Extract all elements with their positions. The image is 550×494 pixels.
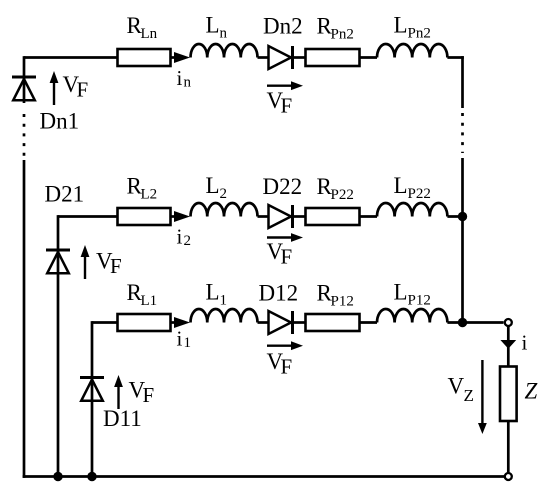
svg-text:F: F — [281, 94, 293, 118]
inductor L_Pn2 — [377, 44, 447, 58]
svg-text:i: i — [177, 225, 183, 249]
svg-text:i: i — [522, 331, 528, 355]
inductor L_1 — [191, 309, 258, 323]
wire: row 1 after resistor — [171, 321, 177, 324]
terminal: output bottom — [505, 473, 512, 480]
wire: row 2 after resistor — [171, 215, 177, 218]
current arrow i (load) — [500, 340, 516, 349]
wire: D21 branch vertical — [57, 215, 60, 476]
V_F arrow under diode Dn2 — [267, 84, 293, 86]
node: junction row 2 right — [458, 212, 467, 221]
svg-text:2: 2 — [220, 186, 228, 202]
diode D11 — [80, 376, 104, 379]
svg-text:P12: P12 — [331, 294, 354, 310]
svg-text:P22: P22 — [331, 187, 354, 203]
resistor R_P12 — [306, 314, 360, 331]
wire: row 2 left segment — [58, 215, 118, 218]
svg-text:L: L — [394, 280, 408, 305]
svg-text:F: F — [77, 78, 89, 102]
svg-text:D21: D21 — [45, 182, 85, 207]
wire: terminal to load Z — [507, 327, 510, 367]
current arrow i_2 — [174, 211, 190, 222]
diode Dn1 — [12, 76, 36, 79]
V_F arrow under diode D22 — [267, 236, 293, 238]
wire: row 2 inductor to diode — [258, 215, 270, 218]
wire: row 1 inductor to diode — [258, 321, 270, 324]
wire: right column lower vertical — [461, 158, 464, 323]
wire: row 1 left segment — [92, 321, 118, 324]
svg-text:L2: L2 — [141, 187, 158, 203]
wire: bottom return — [23, 475, 504, 478]
inductor L_n — [191, 44, 258, 58]
resistor R_Pn2 — [306, 49, 360, 66]
V_F arrow beside D11 — [117, 385, 119, 409]
current arrow i_n — [174, 52, 190, 63]
svg-text:Dn2: Dn2 — [263, 14, 303, 39]
svg-text:Z: Z — [525, 379, 538, 404]
node: junction D21 bottom — [53, 472, 62, 481]
svg-text:i: i — [177, 327, 183, 351]
inductor L_2 — [191, 203, 258, 217]
svg-text:1: 1 — [184, 335, 192, 351]
inductor L_P12 — [377, 309, 447, 323]
V_Z arrow — [481, 360, 483, 424]
wire: row n diode to resistor2 — [293, 56, 307, 59]
wire: dotted continuation left column — [23, 114, 26, 157]
terminal: output top — [505, 319, 512, 326]
svg-text:Z: Z — [464, 386, 474, 405]
svg-text:P12: P12 — [408, 293, 431, 309]
wire: D11 branch vertical — [91, 321, 94, 476]
svg-text:Pn2: Pn2 — [331, 27, 354, 43]
V_F arrow beside Dn1 — [53, 81, 55, 105]
svg-text:i: i — [177, 66, 183, 90]
svg-text:D11: D11 — [103, 406, 142, 431]
svg-text:V: V — [448, 374, 465, 399]
svg-text:L: L — [394, 173, 408, 198]
wire: row 1 to inductor2 — [360, 321, 378, 324]
V_F arrow beside D21 — [84, 255, 86, 279]
wire: row 1 junction to output terminal — [463, 321, 504, 324]
svg-text:Ln: Ln — [141, 26, 158, 42]
wire: right column top vertical — [461, 56, 464, 108]
resistor R_Ln — [118, 49, 171, 66]
current arrow i_1 — [174, 317, 190, 328]
inductor L_P22 — [377, 203, 447, 217]
svg-text:P22: P22 — [408, 186, 431, 202]
svg-text:Dn1: Dn1 — [40, 109, 80, 134]
node: junction D11 bottom — [87, 472, 96, 481]
svg-text:F: F — [143, 383, 155, 407]
svg-text:F: F — [110, 254, 122, 278]
svg-text:L1: L1 — [141, 293, 158, 309]
svg-text:F: F — [281, 245, 293, 269]
svg-text:F: F — [281, 355, 293, 379]
wire: row n to inductor2 — [360, 56, 378, 59]
wire: row n left segment — [24, 56, 118, 59]
svg-text:L: L — [206, 173, 220, 198]
wire: row 2 right segment — [447, 215, 463, 218]
wire: Dn1 branch vertical top — [23, 56, 26, 103]
resistor R_L2 — [118, 208, 171, 225]
node: junction row 1 right — [458, 318, 467, 327]
diode Dn2 — [269, 46, 292, 69]
svg-text:2: 2 — [184, 233, 192, 249]
wire: row 2 to inductor2 — [360, 215, 378, 218]
wire: row 1 diode to resistor2 — [293, 321, 307, 324]
svg-text:L: L — [206, 13, 220, 38]
wire: row n inductor to diode — [258, 56, 270, 59]
diode D12 — [269, 311, 292, 334]
svg-text:n: n — [184, 75, 192, 91]
svg-text:Pn2: Pn2 — [408, 26, 431, 42]
diode D22 — [269, 205, 292, 228]
wire: dotted continuation right column — [461, 113, 464, 153]
svg-text:1: 1 — [220, 293, 228, 309]
wire: left column lower vertical — [23, 160, 26, 478]
wire: row n right segment — [447, 56, 463, 59]
svg-text:n: n — [220, 26, 228, 42]
svg-text:L: L — [394, 13, 408, 38]
V_F arrow under diode D12 — [267, 345, 293, 347]
resistor R_L1 — [118, 314, 171, 331]
wire: row 1 right segment — [447, 321, 463, 324]
svg-text:L: L — [206, 280, 220, 305]
load Z — [500, 367, 517, 422]
svg-text:D22: D22 — [263, 174, 303, 199]
svg-text:D12: D12 — [259, 281, 299, 306]
wire: load Z to bottom terminal — [507, 421, 510, 473]
diode D21 — [46, 249, 70, 252]
wire: row 2 diode to resistor2 — [293, 215, 307, 218]
wire: row n after resistor — [171, 56, 177, 59]
resistor R_P22 — [306, 208, 360, 225]
